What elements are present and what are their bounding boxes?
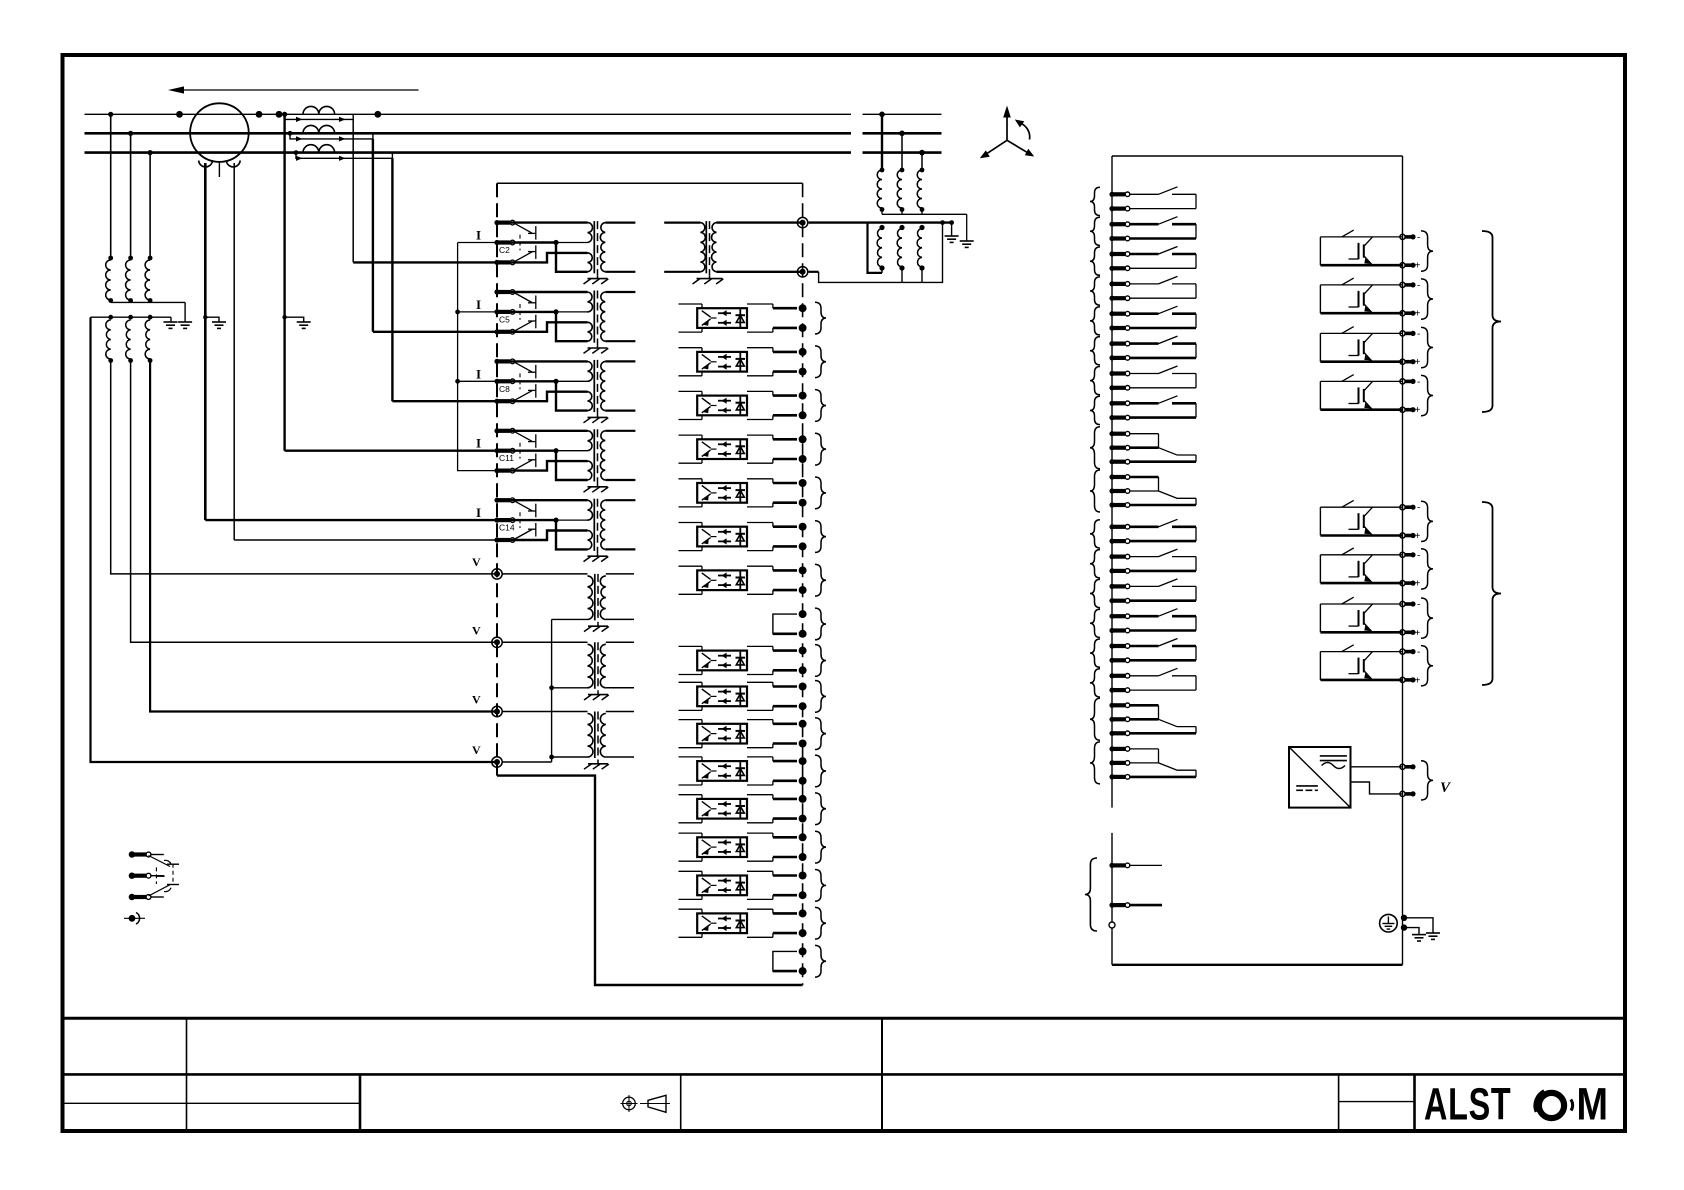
svg-text:I: I (476, 505, 481, 520)
svg-text:-: - (1417, 232, 1420, 243)
svg-text:-: - (1417, 329, 1420, 340)
svg-text:C5: C5 (499, 314, 510, 324)
svg-text:-: - (1417, 550, 1420, 561)
svg-text:C11: C11 (499, 453, 514, 463)
svg-text:+: + (1415, 261, 1421, 272)
svg-text:+: + (1415, 628, 1421, 639)
svg-text:C8: C8 (499, 384, 510, 394)
svg-text:+: + (1415, 309, 1421, 320)
svg-text:-: - (1417, 280, 1420, 291)
svg-text:V: V (472, 693, 481, 707)
svg-text:-: - (1417, 600, 1420, 611)
svg-text:+: + (1415, 357, 1421, 368)
svg-text:+: + (1415, 579, 1421, 590)
svg-text:I: I (476, 228, 481, 243)
svg-text:-: - (1417, 503, 1420, 514)
svg-text:-: - (1417, 647, 1420, 658)
svg-text:V: V (472, 623, 481, 637)
svg-text:I: I (476, 297, 481, 312)
svg-text:I: I (476, 436, 481, 451)
svg-text:V: V (472, 555, 481, 569)
svg-text:C14: C14 (499, 523, 515, 533)
svg-text:M: M (1577, 1078, 1608, 1129)
svg-text:+: + (1415, 675, 1421, 686)
svg-text:+: + (1415, 405, 1421, 416)
svg-text:ALST: ALST (1424, 1080, 1511, 1129)
svg-text:-: - (1417, 377, 1420, 388)
svg-text:C2: C2 (499, 245, 510, 255)
svg-text:V: V (472, 743, 481, 757)
svg-text:+: + (1415, 531, 1421, 542)
svg-text:I: I (476, 366, 481, 381)
